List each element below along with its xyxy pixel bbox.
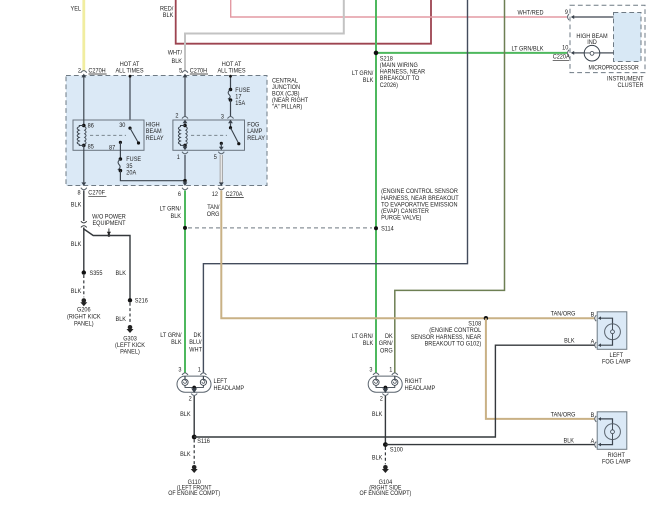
- svg-text:S116: S116: [197, 438, 210, 445]
- svg-text:C220A: C220A: [553, 54, 571, 61]
- microprocessor box: [589, 13, 642, 72]
- svg-text:BLK: BLK: [363, 77, 374, 84]
- svg-text:DK: DK: [194, 332, 202, 339]
- splice S116: [192, 435, 211, 446]
- splice S216: [128, 298, 148, 305]
- svg-text:1: 1: [198, 367, 202, 374]
- svg-text:ORG: ORG: [207, 211, 220, 218]
- svg-text:LT GRN/: LT GRN/: [352, 333, 374, 340]
- CJB label: [272, 77, 308, 110]
- wire pin 87 to fuse 35: [119, 142, 121, 159]
- right fog lamp bulb: [601, 419, 631, 466]
- svg-text:LEFT: LEFT: [214, 378, 228, 385]
- svg-text:BLK: BLK: [564, 338, 575, 345]
- svg-text:WHT: WHT: [189, 346, 202, 353]
- svg-text:PANEL): PANEL): [120, 349, 140, 356]
- wire BLK to S355: [71, 228, 84, 273]
- svg-text:2: 2: [175, 113, 179, 120]
- svg-text:B: B: [591, 412, 595, 419]
- fog relay pin 5 connector: [214, 143, 225, 161]
- splice S108: [411, 316, 488, 347]
- wire dashed S216 to G303: [116, 303, 131, 325]
- svg-text:BLK: BLK: [372, 411, 383, 418]
- svg-text:10: 10: [562, 45, 569, 52]
- left fog lamp pins: [591, 312, 601, 349]
- svg-text:5: 5: [214, 154, 218, 161]
- wire hot-at-all-times to pin 30: [129, 75, 132, 128]
- wire RED/BLK: [160, 0, 431, 44]
- labels right headlamp wires: [352, 333, 394, 354]
- ground G110: [168, 465, 220, 497]
- svg-text:BLK: BLK: [372, 455, 383, 462]
- svg-text:BLK: BLK: [180, 411, 191, 418]
- svg-text:BLK: BLK: [180, 451, 191, 458]
- svg-text:IND: IND: [587, 39, 597, 46]
- svg-text:TAN/ORG: TAN/ORG: [551, 311, 576, 318]
- high beam relay linkage: [90, 134, 126, 136]
- svg-text:BLK: BLK: [363, 340, 374, 347]
- wire DK GRN/ORG: [395, 0, 505, 373]
- svg-text:3: 3: [221, 113, 225, 120]
- svg-text:LT GRN/BLK: LT GRN/BLK: [512, 45, 545, 52]
- right fog lamp pins: [591, 412, 601, 447]
- svg-text:CLUSTER: CLUSTER: [618, 82, 644, 89]
- wire YEL: [71, 0, 84, 71]
- svg-text:BLK: BLK: [71, 288, 82, 295]
- svg-text:C270H: C270H: [190, 67, 207, 74]
- svg-text:ALL TIMES: ALL TIMES: [217, 67, 245, 74]
- fog relay pin 2 connector: [175, 77, 188, 123]
- svg-text:PURGE VALVE): PURGE VALVE): [381, 215, 421, 222]
- svg-text:86: 86: [88, 122, 95, 129]
- label HOT AT ALL TIMES left: [115, 61, 143, 74]
- wire BLK from C270F: [71, 191, 84, 222]
- svg-text:FOG LAMP: FOG LAMP: [602, 458, 631, 465]
- svg-text:BLK: BLK: [71, 202, 82, 209]
- wire dashed S100 to G104: [372, 447, 386, 464]
- splice S355: [82, 270, 103, 277]
- svg-text:BLK: BLK: [564, 438, 575, 445]
- svg-text:1: 1: [389, 367, 393, 374]
- svg-text:BLK: BLK: [171, 213, 182, 220]
- svg-text:LT GRN/: LT GRN/: [160, 332, 182, 339]
- wire TAN/ORG: [207, 191, 595, 319]
- fog relay switch: [220, 123, 241, 145]
- wire BLK left headlamp ground: [180, 396, 194, 437]
- right fog lamp box: [597, 412, 627, 450]
- central junction box CJB: [66, 76, 267, 186]
- instrument cluster label: [607, 76, 644, 90]
- svg-text:ALL TIMES: ALL TIMES: [115, 67, 143, 74]
- high beam relay coil: [77, 122, 94, 150]
- fuse 35 20A: [118, 156, 141, 176]
- svg-text:15A: 15A: [235, 100, 246, 107]
- svg-text:BLK: BLK: [116, 316, 127, 323]
- left fog lamp bulb: [601, 318, 631, 365]
- svg-text:6: 6: [178, 191, 182, 198]
- fog relay coil: [178, 123, 187, 147]
- wire BLK right headlamp ground: [372, 396, 386, 445]
- svg-text:RELAY: RELAY: [146, 135, 165, 142]
- ground G206: [67, 298, 101, 328]
- svg-text:G206: G206: [77, 306, 91, 313]
- wire WHT pin5 to C270A: [220, 155, 222, 183]
- svg-text:S100: S100: [390, 447, 403, 454]
- fog relay linkage: [191, 134, 227, 136]
- svg-text:RELAY: RELAY: [247, 135, 266, 142]
- dashed splice link to S114: [183, 226, 372, 230]
- svg-text:20A: 20A: [126, 169, 137, 176]
- label BLK branch: [116, 270, 127, 277]
- labels left headlamp wires: [160, 332, 202, 353]
- inline connector: [81, 221, 87, 227]
- svg-text:ORG: ORG: [380, 347, 393, 354]
- svg-text:C270F: C270F: [88, 190, 105, 197]
- svg-text:2: 2: [189, 396, 193, 403]
- svg-text:BLK: BLK: [163, 12, 174, 19]
- svg-text:12: 12: [212, 191, 219, 198]
- svg-text:B: B: [591, 312, 595, 319]
- svg-text:1: 1: [177, 154, 181, 161]
- svg-text:BREAKOUT TO G102): BREAKOUT TO G102): [425, 340, 482, 347]
- wire dashed S355 to G206: [71, 275, 84, 297]
- labels TAN/ORG fog lamp feeds: [551, 311, 576, 419]
- cluster pin 10: [553, 45, 575, 61]
- svg-text:TAN/ORG: TAN/ORG: [551, 411, 576, 418]
- svg-text:BLK: BLK: [171, 339, 182, 346]
- svg-text:OF ENGINE COMPT): OF ENGINE COMPT): [359, 491, 411, 497]
- svg-text:TAN/: TAN/: [207, 204, 220, 211]
- splice S114: [374, 226, 394, 233]
- svg-text:BLU/: BLU/: [189, 339, 202, 346]
- fog relay pin 1 connector: [177, 145, 188, 180]
- fuse 17 15A: [228, 87, 250, 107]
- svg-text:LT GRN/: LT GRN/: [160, 206, 182, 213]
- wire WHT/RED: [231, 0, 567, 17]
- label W/O POWER EQUIPMENT: [92, 214, 126, 237]
- svg-text:HEADLAMP: HEADLAMP: [405, 385, 436, 392]
- splice S100: [383, 442, 403, 453]
- svg-text:S355: S355: [90, 270, 103, 277]
- wire DK BLU/WHT: [203, 0, 467, 373]
- wire yellow inside CJB to coil: [83, 77, 85, 126]
- svg-text:BLK: BLK: [116, 270, 127, 277]
- right headlamp: [368, 367, 435, 403]
- svg-text:BLK: BLK: [172, 58, 183, 65]
- svg-text:3: 3: [178, 367, 182, 374]
- svg-text:5: 5: [179, 67, 183, 74]
- high beam indicator: [574, 33, 614, 61]
- svg-text:EQUIPMENT: EQUIPMENT: [92, 220, 125, 227]
- left headlamp: [177, 367, 244, 403]
- svg-text:8: 8: [78, 190, 82, 197]
- svg-text:C270H: C270H: [88, 67, 105, 74]
- junction fuse35/pin1: [183, 179, 187, 183]
- svg-text:RIGHT: RIGHT: [405, 378, 422, 385]
- svg-text:C270A: C270A: [226, 191, 244, 198]
- connector 12 C270A: [212, 182, 244, 198]
- svg-text:2: 2: [78, 67, 82, 74]
- connector 6: [178, 182, 188, 198]
- label HOT AT ALL TIMES right: [217, 61, 245, 74]
- ground G104: [359, 465, 411, 497]
- svg-text:C2026): C2026): [380, 82, 398, 89]
- wire fuse 17 to pin 3: [230, 100, 232, 116]
- wire LT GRN/BLK main: [376, 0, 567, 373]
- fog lamp relay box: [173, 120, 266, 150]
- svg-text:S216: S216: [135, 298, 148, 305]
- wire dashed S116 to G110: [180, 440, 194, 465]
- svg-text:30: 30: [119, 122, 126, 129]
- connector 8 C270F: [78, 145, 107, 196]
- svg-text:OF ENGINE COMPT): OF ENGINE COMPT): [168, 491, 220, 497]
- high beam relay switch: [109, 122, 140, 151]
- cluster pin 9: [565, 9, 614, 20]
- instrument cluster box: [570, 5, 645, 72]
- svg-text:9: 9: [565, 9, 569, 16]
- wire TAN/ORG S108 branch: [486, 318, 595, 419]
- wire WHT/BLK: [168, 0, 344, 71]
- svg-text:3: 3: [369, 367, 373, 374]
- ground G303: [115, 325, 146, 356]
- svg-text:(RIGHT KICK: (RIGHT KICK: [67, 314, 101, 321]
- wire BLK S100 to right fog lamp: [385, 438, 595, 445]
- label LT GRN/BLK near S218: [352, 70, 374, 84]
- fog relay pin 3 connector: [221, 113, 234, 123]
- svg-text:DK: DK: [385, 333, 393, 340]
- label engine control sensor harness S114: [381, 188, 459, 221]
- svg-text:MICROPROCESSOR: MICROPROCESSOR: [589, 64, 640, 71]
- svg-text:87: 87: [109, 144, 116, 151]
- connector 5 C270H: [179, 67, 208, 77]
- svg-text:GRN/: GRN/: [379, 340, 393, 347]
- svg-text:FOG LAMP: FOG LAMP: [602, 358, 631, 365]
- svg-text:BLK: BLK: [71, 241, 82, 248]
- svg-text:"A" PILLAR): "A" PILLAR): [272, 104, 302, 111]
- high beam relay box: [73, 120, 164, 150]
- svg-text:WHT/: WHT/: [168, 49, 182, 56]
- svg-text:WHT/RED: WHT/RED: [518, 10, 544, 17]
- svg-text:YEL: YEL: [71, 6, 82, 13]
- svg-text:PANEL): PANEL): [74, 321, 94, 328]
- wire BLK branch to S216: [84, 228, 130, 301]
- connector 2 C270H: [78, 67, 107, 77]
- wire BLK S116 to left fog lamp: [194, 338, 595, 438]
- svg-text:2: 2: [380, 396, 384, 403]
- svg-text:85: 85: [88, 143, 95, 150]
- svg-text:S114: S114: [381, 226, 394, 233]
- wire hot-at-all-times to fuse 17: [229, 75, 232, 90]
- wire fuse 35 to junction: [120, 171, 184, 181]
- left fog lamp box: [597, 312, 627, 350]
- svg-text:HEADLAMP: HEADLAMP: [214, 385, 245, 392]
- wire LT GRN/BLK left: [160, 191, 185, 373]
- splice S218: [374, 51, 426, 89]
